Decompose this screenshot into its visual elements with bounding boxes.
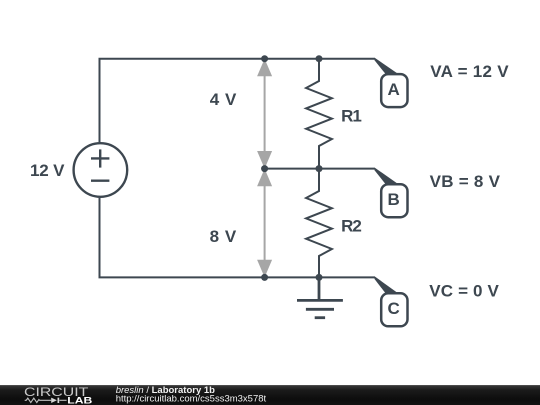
svg-text:4 V: 4 V: [210, 90, 237, 109]
svg-text:A: A: [387, 80, 399, 99]
svg-text:C: C: [387, 299, 399, 318]
svg-text:B: B: [387, 190, 399, 209]
svg-text:LAB: LAB: [67, 395, 92, 405]
svg-text:R1: R1: [341, 107, 362, 126]
svg-text:http://circuitlab.com/cs5ss3m3: http://circuitlab.com/cs5ss3m3x578t: [116, 394, 267, 405]
svg-text:VC = 0 V: VC = 0 V: [429, 281, 499, 300]
svg-text:R2: R2: [341, 217, 362, 236]
svg-text:12 V: 12 V: [30, 161, 65, 180]
svg-text:VB = 8 V: VB = 8 V: [430, 172, 501, 191]
svg-text:VA = 12 V: VA = 12 V: [430, 62, 509, 81]
svg-text:8 V: 8 V: [210, 227, 237, 246]
